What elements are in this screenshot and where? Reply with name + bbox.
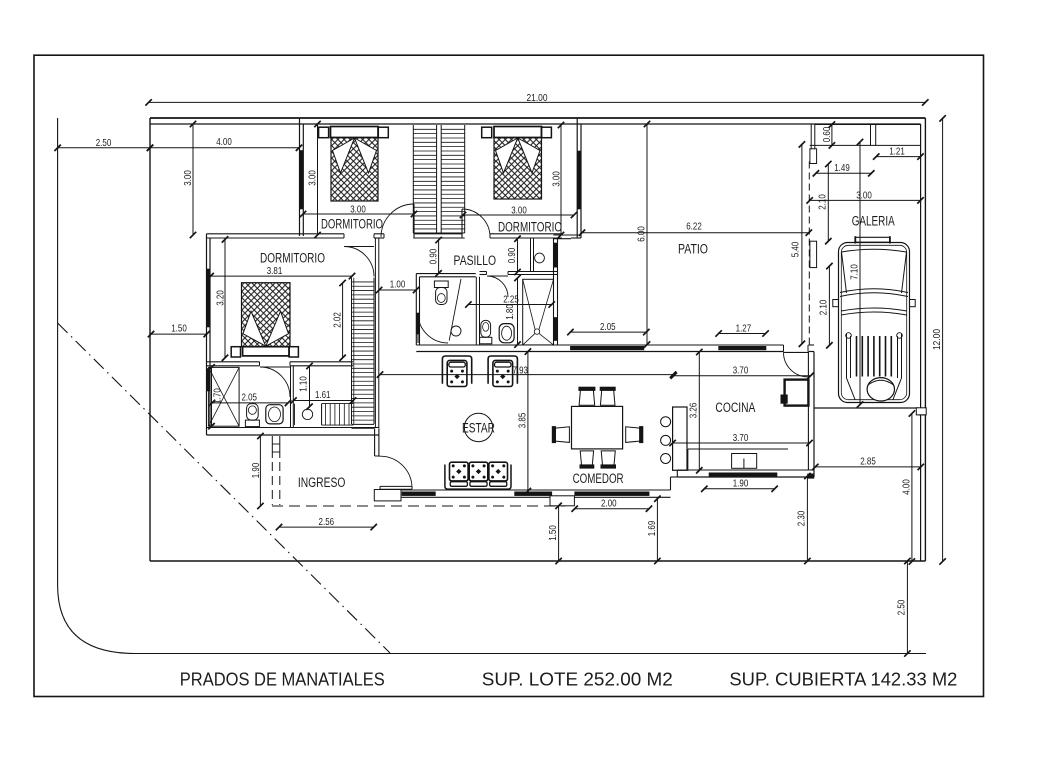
window shower east xyxy=(554,318,557,341)
svg-text:1.21: 1.21 xyxy=(889,146,905,158)
svg-text:12.00: 12.00 xyxy=(931,329,943,350)
wall patio jog at dorm2 xyxy=(554,234,582,236)
dimension 3.85 vertical xyxy=(517,348,531,494)
dimension 7.10 vertical xyxy=(848,139,863,408)
svg-text:6.22: 6.22 xyxy=(686,221,702,233)
wall dorm2 east xyxy=(576,118,578,238)
shower bath3 with X xyxy=(209,367,240,426)
window toilette east xyxy=(554,243,557,267)
wall bedrooms south (pasillo north) xyxy=(207,234,582,238)
window comedor south xyxy=(575,492,649,496)
wall bath2 north xyxy=(480,271,487,273)
svg-text:3.26: 3.26 xyxy=(688,403,700,419)
dimension 3.00 vertical xyxy=(182,121,196,238)
dimension 2.30 vertical xyxy=(796,473,811,564)
sidewalk line vertical + corner curve + street line xyxy=(58,118,926,654)
roof overhang dashed line xyxy=(272,505,565,507)
svg-text:2.00: 2.00 xyxy=(601,498,617,510)
dimension 2.50 vertical xyxy=(896,558,911,657)
svg-text:2.50: 2.50 xyxy=(96,137,112,149)
dimension 0.90 vertical xyxy=(427,237,442,277)
svg-text:0.60: 0.60 xyxy=(821,127,833,143)
sink bath1 xyxy=(451,326,461,336)
dimension 2.50 horizontal xyxy=(54,137,153,151)
bed dorm3 xyxy=(231,283,298,357)
svg-text:PASILLO: PASILLO xyxy=(454,253,497,268)
dimension 7.93 horizontal xyxy=(377,365,676,378)
door cocina xyxy=(784,352,809,377)
wall estar-comedor south xyxy=(375,490,671,497)
svg-text:3.20: 3.20 xyxy=(214,290,226,306)
stove xyxy=(732,454,757,469)
bed dorm1 xyxy=(319,127,389,202)
car pickup in galeria xyxy=(833,236,915,402)
svg-text:6.00: 6.00 xyxy=(635,226,647,242)
bed dorm2 xyxy=(482,127,552,200)
dimension 3.00 vertical xyxy=(550,122,564,238)
galeria open edge dashed xyxy=(808,162,810,346)
dimension 2.00 horizontal xyxy=(572,498,653,512)
svg-text:2.30: 2.30 xyxy=(796,511,808,527)
galeria niche bottom xyxy=(810,144,921,146)
wall bath-block south xyxy=(207,427,379,429)
wall comedor east jog xyxy=(670,477,672,490)
svg-text:COCINA: COCINA xyxy=(715,400,755,415)
sink bath3 counter xyxy=(294,404,296,426)
dimension 0.60 vertical xyxy=(821,121,835,148)
svg-text:3.00: 3.00 xyxy=(856,190,872,202)
wall estar west xyxy=(374,428,376,456)
galeria niche top xyxy=(815,124,921,126)
svg-text:DORMITORIO: DORMITORIO xyxy=(321,216,383,231)
dimension 4.00 vertical xyxy=(900,410,915,564)
stairs band mid (right of dorm3) xyxy=(352,278,375,429)
svg-text:1.50: 1.50 xyxy=(547,525,559,541)
window bath1 west wall xyxy=(417,313,420,334)
svg-text:1.27: 1.27 xyxy=(736,323,752,335)
stairs band top (between dorm1 and dorm2) xyxy=(413,125,464,238)
dimension 1.27 horizontal xyxy=(715,323,768,337)
svg-text:2.10: 2.10 xyxy=(818,300,830,316)
wall bath1 north xyxy=(416,273,476,275)
dimension 2.02 vertical xyxy=(331,280,346,361)
fridge xyxy=(785,380,809,406)
door bath3 xyxy=(260,367,290,397)
dimension 2.05 horizontal xyxy=(567,321,649,335)
svg-text:3.00: 3.00 xyxy=(306,170,318,186)
svg-text:2.85: 2.85 xyxy=(860,456,876,468)
svg-text:2.25: 2.25 xyxy=(503,294,519,306)
wall bath/patio east xyxy=(553,238,555,345)
wall cocina east xyxy=(807,352,809,470)
dimension 1.90 horizontal xyxy=(701,478,778,492)
lot boundary left xyxy=(149,118,151,561)
sofa estar xyxy=(445,462,511,489)
svg-text:COMEDOR: COMEDOR xyxy=(573,471,624,486)
sink toilette xyxy=(535,253,545,263)
svg-text:2.05: 2.05 xyxy=(600,321,616,333)
svg-text:1.00: 1.00 xyxy=(390,279,406,291)
svg-text:3.00: 3.00 xyxy=(350,204,366,216)
property corner diagonal dash-dot line xyxy=(58,323,390,653)
dimension 3.70 horizontal xyxy=(669,432,812,446)
door jambs bedrooms wall xyxy=(344,234,490,238)
chair left xyxy=(552,427,569,443)
wall house west upper (dorm1 left) xyxy=(299,118,301,236)
dimension 1.50 horizontal xyxy=(148,323,210,338)
dining table xyxy=(572,406,623,449)
wall toilette west xyxy=(530,238,532,272)
dimension 3.00 vertical xyxy=(306,121,320,238)
door dorm3 xyxy=(344,247,374,277)
page border frame xyxy=(34,55,984,696)
shower bath2 with X and drain xyxy=(523,279,554,345)
svg-text:3.81: 3.81 xyxy=(267,265,283,277)
dimension 6.22 horizontal xyxy=(579,221,812,236)
lot boundary bottom xyxy=(150,560,925,562)
dimension 3.00 horizontal xyxy=(300,204,417,218)
estar label circle xyxy=(464,413,492,441)
toilet bath3 xyxy=(245,404,259,427)
window dorm3 west wall xyxy=(207,269,210,327)
dimension 6.00 vertical xyxy=(635,121,650,348)
door jambs cocina xyxy=(783,345,785,352)
wall dorm3/bath3 divider xyxy=(207,361,260,363)
svg-text:7.10: 7.10 xyxy=(848,264,860,280)
dimension 3.81 horizontal xyxy=(207,265,355,279)
svg-text:3.70: 3.70 xyxy=(733,432,749,444)
svg-text:3.85: 3.85 xyxy=(517,413,529,429)
svg-text:SUP. LOTE 252.00 M2: SUP. LOTE 252.00 M2 xyxy=(482,669,673,690)
dimension 1.00 horizontal xyxy=(376,279,419,294)
svg-text:5.40: 5.40 xyxy=(790,242,802,258)
dimension 12.00 vertical xyxy=(931,115,946,565)
galeria south-east pier xyxy=(916,408,926,415)
bar counter xyxy=(673,407,687,470)
window patio south 2.05 xyxy=(570,346,644,350)
comedor step xyxy=(550,496,574,506)
svg-text:0.90: 0.90 xyxy=(506,248,518,264)
svg-text:3.00: 3.00 xyxy=(182,170,194,186)
chair bottom-right xyxy=(601,451,616,468)
chair bottom-left xyxy=(580,451,594,468)
wall bath3 partition xyxy=(290,366,292,428)
window cocina north 1.27 xyxy=(719,346,766,350)
armchair 2 xyxy=(488,356,517,387)
svg-text:SUP. CUBIERTA 142.33 M2: SUP. CUBIERTA 142.33 M2 xyxy=(729,669,957,690)
svg-text:4.00: 4.00 xyxy=(900,479,912,495)
galeria south step line xyxy=(919,414,926,416)
chair top-right xyxy=(600,387,615,405)
dimension 2.10 vertical xyxy=(817,161,832,245)
svg-text:21.00: 21.00 xyxy=(527,92,548,104)
dimension 2.85 horizontal xyxy=(812,456,924,471)
svg-text:1.10: 1.10 xyxy=(298,376,310,392)
svg-text:1.61: 1.61 xyxy=(315,389,331,401)
galeria column upper xyxy=(810,149,817,164)
svg-text:2.05: 2.05 xyxy=(241,392,257,404)
entry gate line left xyxy=(271,436,273,458)
kitchen counter edge xyxy=(688,448,788,450)
svg-text:DORMITORIO: DORMITORIO xyxy=(260,250,325,265)
lot boundary right inner xyxy=(920,124,922,561)
dimension 1.90 vertical xyxy=(250,433,264,509)
dimension 3.00 horizontal xyxy=(460,205,577,219)
window bath3 west wall xyxy=(207,369,210,392)
svg-text:1.80: 1.80 xyxy=(504,304,516,320)
svg-text:ESTAR: ESTAR xyxy=(462,420,495,435)
door bath1 xyxy=(418,313,448,343)
dimension 2.10 vertical xyxy=(818,263,833,349)
wall house west mid (dorm3 left) xyxy=(206,234,208,435)
wall bath1 west xyxy=(415,274,417,345)
door jambs bath3 xyxy=(259,362,261,366)
cocina SE corner block xyxy=(808,474,815,479)
bidet bath2 xyxy=(499,324,514,343)
svg-text:2.50: 2.50 xyxy=(896,600,908,616)
svg-text:2.02: 2.02 xyxy=(331,312,343,328)
lot boundary right outer xyxy=(924,118,926,561)
window dorm2 east wall xyxy=(578,151,581,209)
entry gate rungs xyxy=(272,443,280,445)
window cocina south 1.90 xyxy=(709,473,777,477)
wall bath1/bath2 divider xyxy=(475,277,477,345)
door dorm1 xyxy=(381,204,414,237)
dimension 3.26 vertical xyxy=(688,349,703,474)
dimension 0.90 vertical xyxy=(506,236,521,276)
chair top-left xyxy=(579,387,595,405)
dimension 5.40 vertical xyxy=(790,141,805,347)
dimension 1.10 vertical xyxy=(298,363,313,410)
window estar south a xyxy=(402,492,435,496)
dimension 2.05 horizontal xyxy=(209,392,291,407)
dimension 1.21 horizontal xyxy=(873,146,924,160)
svg-text:1.50: 1.50 xyxy=(171,323,187,335)
svg-text:1.69: 1.69 xyxy=(646,521,658,537)
svg-text:4.00: 4.00 xyxy=(216,136,232,148)
svg-text:INGRESO: INGRESO xyxy=(298,475,346,490)
dimension 21.00 horizontal xyxy=(145,92,928,106)
wall cocina south xyxy=(677,469,814,471)
window dorm1 west wall xyxy=(300,151,303,210)
svg-text:1.90: 1.90 xyxy=(250,463,262,479)
bar stool 3 xyxy=(661,454,671,464)
door bath2 xyxy=(487,276,508,297)
window estar south b xyxy=(515,492,552,496)
svg-text:2.10: 2.10 xyxy=(817,194,829,210)
galeria niche west wall xyxy=(814,125,816,163)
dimension 3.70 horizontal xyxy=(671,365,814,379)
wall estar west bottom stub xyxy=(374,490,376,498)
svg-text:1.49: 1.49 xyxy=(834,162,850,174)
dimension 2.25 horizontal xyxy=(465,294,555,308)
bathtub bath3 xyxy=(266,405,283,424)
dimension 2.56 horizontal xyxy=(276,516,377,530)
lot boundary top outer xyxy=(150,117,925,119)
door dorm2 xyxy=(462,209,490,237)
dimension 3.20 vertical xyxy=(214,236,228,361)
lot boundary top inner xyxy=(150,123,921,125)
svg-text:1.90: 1.90 xyxy=(733,478,749,490)
svg-text:GALERIA: GALERIA xyxy=(852,214,895,229)
door jambs bath2 xyxy=(486,272,488,275)
dimension 1.69 vertical xyxy=(646,496,661,565)
wall stairs/corridor divider xyxy=(374,238,376,428)
toilet bath2 xyxy=(480,320,492,343)
door estar entry xyxy=(379,456,412,487)
chair right xyxy=(626,427,643,443)
galeria column lower xyxy=(810,241,817,267)
galeria niche divider xyxy=(870,124,872,145)
entry step xyxy=(374,490,401,501)
dimension 1.49 horizontal xyxy=(813,162,875,176)
dimension 3.00 horizontal xyxy=(807,190,924,204)
svg-text:PATIO: PATIO xyxy=(678,241,708,256)
toilet bath1 xyxy=(434,281,448,305)
entry gate line right xyxy=(279,436,281,458)
svg-text:3.00: 3.00 xyxy=(550,171,562,187)
dimension 4.00 horizontal xyxy=(147,136,302,151)
dimension 1.50 vertical xyxy=(547,503,562,565)
svg-text:3.70: 3.70 xyxy=(733,365,749,377)
dimension 1.61 horizontal xyxy=(290,389,356,404)
bar stool 2 xyxy=(661,435,671,445)
vanity bath1 diagonal xyxy=(449,279,461,341)
svg-text:DORMITORIO: DORMITORIO xyxy=(498,219,562,234)
svg-text:1.70: 1.70 xyxy=(212,388,224,404)
galeria south edge xyxy=(814,407,919,409)
svg-text:0.90: 0.90 xyxy=(427,249,439,265)
svg-text:PRADOS DE MANATIALES: PRADOS DE MANATIALES xyxy=(180,669,385,690)
svg-text:7.93: 7.93 xyxy=(512,365,528,377)
svg-text:2.56: 2.56 xyxy=(319,516,335,528)
dimension 1.80 vertical xyxy=(504,275,521,348)
dimension 1.70 vertical xyxy=(208,364,223,429)
bar stool 1 xyxy=(661,417,671,427)
svg-text:3.00: 3.00 xyxy=(511,205,527,217)
armchair 1 xyxy=(442,356,471,387)
wall patio south / cocina north xyxy=(416,345,814,352)
stairs band bath3 (linen steps) xyxy=(322,404,354,426)
